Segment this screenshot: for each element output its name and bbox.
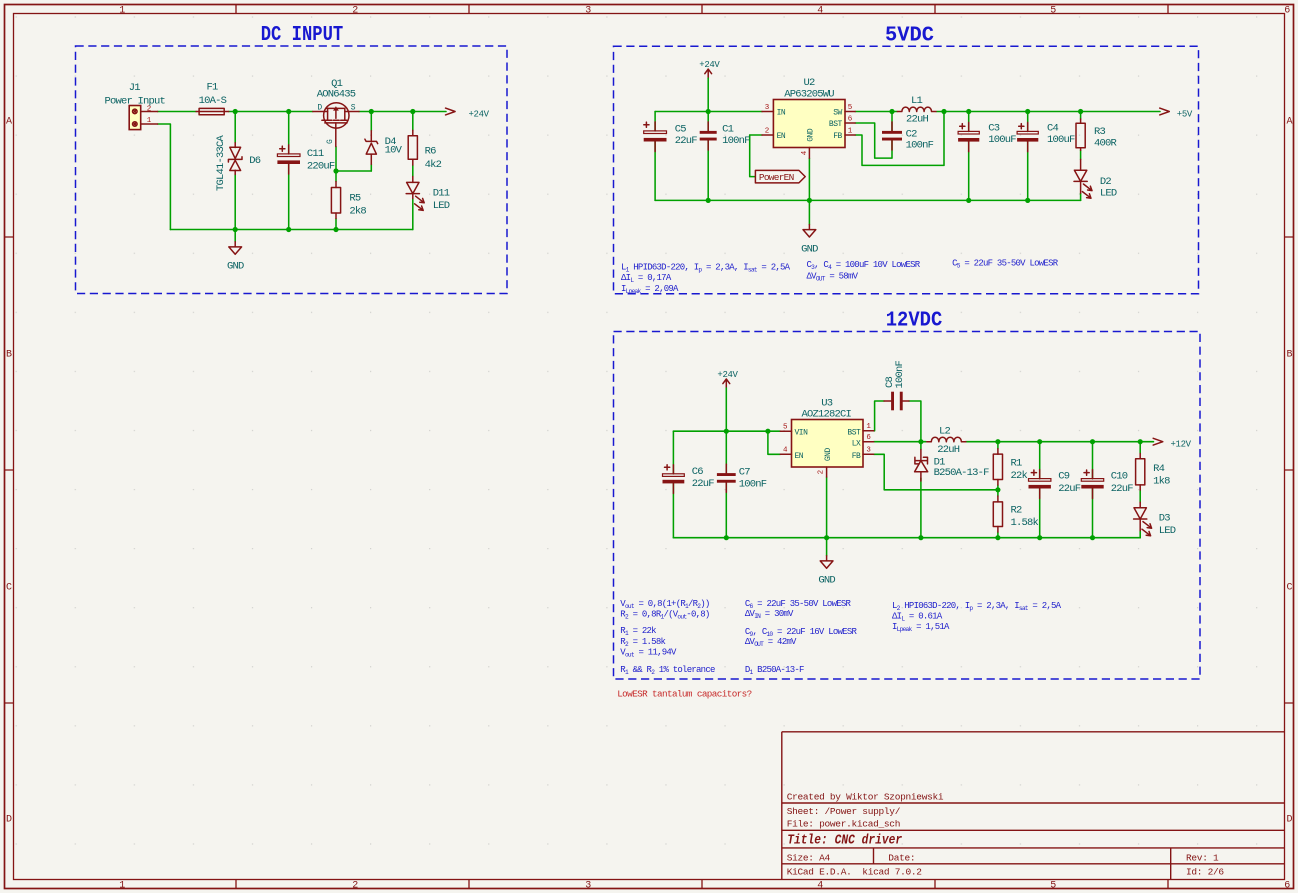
svg-text:5: 5 [1050,880,1056,891]
wire LX node to D1 [920,442,922,450]
wire C6 bottom [672,483,674,537]
svg-text:ΔVOUT = 42mV: ΔVOUT = 42mV [745,637,797,648]
wire C3 top [968,112,970,132]
svg-text:PowerEN: PowerEN [759,172,794,183]
svg-text:G: G [326,139,335,144]
junction U3 GND / ground rail [824,535,829,540]
resistor R4 [1136,454,1145,491]
junction C3 / ground rail [966,198,971,203]
svg-text:TGL41-33CA: TGL41-33CA [215,134,227,191]
wire J1 pin2 to F1 [158,111,197,113]
wire D2 to ground rail [1080,193,1082,200]
svg-text:22uF: 22uF [692,478,715,490]
wire BST up to C8 [874,401,884,431]
svg-text:R1 && R2 1% tolerance: R1 && R2 1% tolerance [620,665,715,676]
svg-text:R1: R1 [1011,458,1023,470]
svg-text:22uF: 22uF [1058,483,1081,495]
svg-text:AOZ1282CI: AOZ1282CI [802,409,852,421]
ground symbol GND (12VDC) [820,556,833,569]
svg-text:6: 6 [1284,880,1290,891]
op-amp U3 AOZ1282CI regulator body [792,420,864,468]
junction R2 / ground rail [995,535,1000,540]
power symbol +24V (5VDC) [705,69,712,78]
wire SW to L1 [855,111,897,113]
svg-text:Sheet: /Power supply/: Sheet: /Power supply/ [787,806,901,817]
wire +12V rail to R4 [1139,442,1141,454]
wire C1 bottom [707,141,709,201]
svg-text:DC INPUT: DC INPUT [261,24,344,47]
power symbol +12V output arrow [1153,438,1163,445]
U2 pin 6 BST [845,122,855,124]
wire D4 bottom [370,164,372,171]
wire Q1 source to +24V rail [359,111,446,113]
LED D3 [1134,502,1152,536]
svg-text:C10: C10 [1111,471,1128,483]
svg-text:C3, C4 = 100uF 10V LowESR: C3, C4 = 100uF 10V LowESR [807,260,921,271]
svg-text:+12V: +12V [1171,440,1192,450]
fuse F1 [196,108,229,114]
wire C7 top [725,431,727,473]
svg-text:Title: CNC driver: Title: CNC driver [787,833,902,849]
svg-text:GND: GND [807,128,816,142]
svg-text:Date:: Date: [888,852,915,863]
resistor R3 [1076,119,1085,150]
svg-text:R5: R5 [349,193,361,205]
wire L2 to +12V rail [966,441,1154,443]
wire C8 to LX node [909,401,921,442]
svg-text:R2: R2 [1011,504,1023,516]
svg-text:C11: C11 [307,148,324,160]
wire C5 bottom [654,142,656,201]
svg-text:R4: R4 [1153,463,1165,475]
wire 12VDC ground rail [673,537,1140,539]
junction C11 / ground rail [286,227,291,232]
junction C10 / +12V rail [1090,439,1095,444]
U2 pin 2 EN [762,134,773,136]
svg-text:C: C [6,583,12,594]
diode D4 zener 10V [365,131,378,165]
svg-text:GND: GND [824,448,833,462]
wire +12V rail to R1 [997,442,999,449]
svg-text:F1: F1 [206,82,218,94]
svg-text:U2: U2 [803,77,815,89]
junction C7 / ground rail 12VDC [724,535,729,540]
wire C1 top [707,112,709,131]
wire D4 top [370,112,372,131]
svg-text:+24V: +24V [469,109,490,119]
svg-text:22uF: 22uF [675,135,698,147]
capacitor C10 22uF [1081,470,1103,499]
svg-text:GND: GND [818,575,835,587]
svg-text:22uF: 22uF [1111,483,1134,495]
svg-text:A: A [1286,117,1292,128]
junction C9 / ground rail [1037,535,1042,540]
svg-text:1k8: 1k8 [1153,475,1170,487]
svg-text:D: D [6,815,12,826]
svg-text:3: 3 [585,5,591,16]
svg-text:C5: C5 [675,123,687,135]
wire C6 top [672,431,674,474]
wire R5 to ground rail [335,219,337,230]
svg-text:100nF: 100nF [722,135,750,147]
svg-text:R6: R6 [425,146,437,158]
wire C3 bottom [968,142,970,201]
svg-text:C1: C1 [722,123,734,135]
svg-text:LED: LED [1159,525,1176,537]
wire R6 to D11 [412,165,414,177]
svg-text:+24V: +24V [717,370,738,380]
U3 pin 3 FB [863,453,874,455]
svg-text:4: 4 [817,880,823,891]
power symbol +24V output arrow [446,108,456,115]
resistor R2 [993,496,1002,532]
wire +24V rail to R6 [412,112,414,131]
U2 pin 3 IN [762,111,773,113]
svg-text:3: 3 [585,880,591,891]
wire C9 bottom [1039,489,1041,538]
svg-text:L2: L2 [939,425,951,437]
svg-text:R3: R3 [1094,126,1106,138]
svg-text:22uH: 22uH [937,444,960,456]
junction C4 / ground rail [1025,198,1030,203]
U2 pin 4 GND [808,148,810,159]
wire C4 top [1027,112,1029,132]
svg-text:100nF: 100nF [739,478,767,490]
svg-text:2k8: 2k8 [349,205,366,217]
junction R5 / ground rail [333,227,338,232]
svg-text:+5V: +5V [1177,109,1193,119]
svg-text:LED: LED [1100,187,1117,199]
title block outline [782,732,1285,880]
svg-text:4: 4 [817,5,823,16]
capacitor C4 100uF [1017,122,1038,151]
global label PowerEN [755,170,805,183]
svg-text:6: 6 [1284,5,1290,16]
wire C10 top [1092,442,1094,479]
wire U2 GND pin down [808,158,810,224]
wire C11 bottom [288,164,290,230]
svg-text:D6: D6 [249,155,261,167]
svg-text:LowESR tantalum capacitors?: LowESR tantalum capacitors? [617,688,751,699]
svg-text:U3: U3 [821,397,833,409]
svg-text:Rev: 1: Rev: 1 [1186,852,1219,863]
svg-text:C6: C6 [692,466,704,478]
diode D1 B250A-13-F schottky [915,450,928,482]
wire R1 to R2 node [997,485,999,496]
svg-text:VIN: VIN [795,429,809,438]
LED D11 [406,177,424,211]
svg-text:22k: 22k [1011,470,1028,482]
svg-text:C7: C7 [739,466,751,478]
junction EN tie / VIN rail [765,429,770,434]
svg-text:FB: FB [833,132,842,141]
svg-text:Created by Wiktor Szopniewski: Created by Wiktor Szopniewski [787,792,944,803]
svg-text:C4: C4 [1047,122,1059,134]
wire down to PowerEN label [750,135,755,177]
junction R6 / +24V rail [410,109,415,114]
svg-text:2: 2 [818,470,826,474]
svg-text:BST: BST [847,428,861,437]
wire C9 top [1039,442,1041,479]
svg-text:GND: GND [227,261,244,273]
wire 5VDC ground rail [655,199,1081,201]
svg-text:AP63205WU: AP63205WU [784,89,834,101]
wire input rail 12VDC [673,430,780,432]
wire gate node to R5 [335,171,337,182]
wire to GND symbol [234,230,236,242]
U3 pin 6 LX [863,441,874,443]
wire to C5 top [654,112,656,131]
svg-text:100nF: 100nF [906,139,934,151]
wire L1 to +5V rail [937,111,1161,113]
svg-text:B: B [1286,350,1292,361]
wire C7 bottom [725,483,727,538]
op-amp U2 AP63205WU regulator body [773,100,845,148]
U2 pin 1 FB [845,134,855,136]
junction C9 / +12V rail [1037,439,1042,444]
wire +24V down to rail (12VDC) [725,388,727,431]
svg-text:File: power.kicad_sch: File: power.kicad_sch [787,818,900,829]
wire D11 to ground rail [412,199,414,230]
svg-text:ΔVOUT = 58mV: ΔVOUT = 58mV [807,271,859,282]
wire C10 bottom [1092,489,1094,538]
wire gate node to D4 [336,170,371,172]
svg-text:10V: 10V [385,145,403,157]
capacitor C5 22uF [644,122,667,152]
svg-text:KiCad E.D.A. kicad 7.0.2: KiCad E.D.A. kicad 7.0.2 [787,866,923,877]
junction +24V / C1 (5VDC) [706,109,711,114]
svg-text:1: 1 [119,5,125,16]
svg-text:D: D [317,103,322,112]
capacitor C7 100nF [717,464,736,492]
svg-text:2: 2 [352,880,358,891]
diode D6 TVS TGL41-33CA [228,143,242,175]
svg-text:ΔIL = 0.61A: ΔIL = 0.61A [892,611,943,622]
5VDC section dashed box [614,46,1199,293]
inductor L2 22uH [927,437,966,441]
svg-text:S: S [351,103,356,112]
junction SW / C2 [889,109,894,114]
svg-text:C9, C10 = 22uF 16V LowESR: C9, C10 = 22uF 16V LowESR [745,627,858,638]
svg-text:R2 = 0,8R1/(Vout-0,8): R2 = 0,8R1/(Vout-0,8) [620,610,709,621]
wire D1 to ground rail [920,478,922,538]
svg-text:D1 B250A-13-F: D1 B250A-13-F [745,665,804,676]
capacitor C6 22uF [663,465,685,494]
junction FB / R1 / R2 [995,487,1000,492]
U2 pin 5 SW [845,111,855,113]
svg-text:C9: C9 [1058,471,1070,483]
LED D2 [1074,159,1092,198]
svg-text:L1: L1 [911,95,923,107]
wire R3 to D2 [1080,150,1082,159]
svg-text:LED: LED [433,200,450,212]
junction C1 / ground rail 5VDC [706,198,711,203]
junction C11 / +24V input rail [286,109,291,114]
junction C4 / +5V rail [1025,109,1030,114]
svg-text:ΔIL = 0,17A: ΔIL = 0,17A [621,273,672,284]
wire U3 GND pin down [826,477,828,556]
svg-text:D: D [1286,815,1292,826]
wire C2 bottom to BST [855,123,892,158]
svg-text:C: C [1286,583,1292,594]
DC INPUT section dashed box [76,46,508,294]
wire FB to output node [855,112,944,166]
svg-text:A: A [6,117,12,128]
connector J1 [129,106,157,130]
wire C11 top [288,112,290,154]
capacitor C3 100uF [958,122,979,151]
ground symbol GND (DC input) [229,242,242,255]
capacitor C9 22uF [1029,470,1051,499]
svg-text:4k2: 4k2 [425,159,442,171]
U3 pin 4 EN [780,453,791,455]
wire input rail 5VDC [655,111,762,113]
svg-text:220uF: 220uF [307,160,335,172]
12VDC section dashed box [614,332,1201,680]
svg-text:J1: J1 [129,82,141,94]
svg-text:D2: D2 [1100,176,1112,188]
junction L1 out / FB [941,109,946,114]
svg-text:B: B [6,350,12,361]
junction D4 / +24V rail [369,109,374,114]
wire J1 pin1 down to ground rail [158,124,171,230]
svg-text:Size: A4: Size: A4 [787,852,831,863]
wire R2 to ground rail [997,532,999,538]
junction R1 / +12V rail [995,439,1000,444]
U3 pin 2 GND [826,467,828,477]
svg-text:+24V: +24V [699,60,720,70]
wire Q1 gate down [335,147,337,172]
svg-text:2: 2 [352,5,358,16]
capacitor C11 220uF [277,145,300,174]
wire D6 top [234,112,236,143]
resistor R1 [993,449,1002,485]
svg-text:2: 2 [765,127,769,135]
svg-text:Vout = 0,8(1+(R1/R2)): Vout = 0,8(1+(R1/R2)) [620,599,709,610]
svg-text:GND: GND [801,243,818,255]
svg-text:22uH: 22uH [906,114,929,126]
svg-text:EN: EN [795,452,804,461]
svg-text:Id: 2/6: Id: 2/6 [1186,866,1224,877]
transistor Q1 AON6435 P-MOSFET [313,103,359,147]
svg-text:B250A-13-F: B250A-13-F [934,467,990,479]
inductor L1 22uH [897,107,936,111]
U3 pin 1 BST [863,430,874,432]
junction D6 / ground rail [233,227,238,232]
svg-text:100nF: 100nF [894,360,906,388]
svg-text:R2 = 1.58k: R2 = 1.58k [620,637,665,648]
svg-text:5: 5 [1050,5,1056,16]
wire +24V down to rail (5VDC) [707,78,709,111]
svg-text:Power Input: Power Input [105,95,166,107]
wire C2 top [891,112,893,131]
resistor R6 [408,130,417,165]
wire D3 to ground rail [1139,531,1141,538]
svg-text:ΔVIN = 30mV: ΔVIN = 30mV [745,609,794,620]
svg-text:AON6435: AON6435 [317,88,356,100]
junction D6 / +24V input rail [233,109,238,114]
svg-text:400R: 400R [1094,138,1118,150]
junction C10 / ground rail [1090,535,1095,540]
wire +5V rail to R3 [1080,112,1082,120]
svg-text:12VDC: 12VDC [886,309,943,332]
capacitor C1 100nF [700,122,717,150]
junction R4 / +12V rail [1138,439,1143,444]
svg-text:1: 1 [119,880,125,891]
svg-text:D11: D11 [433,188,450,200]
wire C4 bottom [1027,142,1029,201]
svg-text:5VDC: 5VDC [885,24,934,47]
wire LX to L2 [874,441,926,443]
svg-text:SW: SW [833,109,842,118]
svg-text:1.58k: 1.58k [1011,517,1039,529]
svg-text:FB: FB [852,452,861,461]
svg-text:EN: EN [777,132,786,141]
junction LX / C8 / D1 [918,439,923,444]
junction D1 / ground rail [918,535,923,540]
resistor R5 [331,182,340,219]
svg-text:D3: D3 [1159,513,1171,525]
U3 pin 5 VIN [780,430,791,432]
svg-text:BST: BST [829,120,843,129]
junction +24V / C7 (12VDC) [724,429,729,434]
svg-text:C3: C3 [988,122,1000,134]
capacitor C2 100nF [882,122,902,150]
junction R3 / +5V rail [1078,109,1083,114]
wire FB to divider [874,454,998,490]
svg-text:L2 HPI063D-220, Ip = 2,3A, Isa: L2 HPI063D-220, Ip = 2,3A, Isat = 2,5A [892,601,1062,612]
wire DC input ground rail [170,229,412,231]
svg-text:IN: IN [777,109,786,118]
capacitor C8 100nF (bootstrap) [884,392,909,411]
junction Q1 gate node [333,168,338,173]
wire R4 to D3 [1139,490,1141,502]
wire D6 bottom [234,174,236,229]
svg-text:10A-S: 10A-S [199,95,227,107]
svg-text:100uF: 100uF [988,134,1016,146]
power symbol +24V (12VDC) [723,379,730,388]
svg-text:C5 = 22uF 35-50V LowESR: C5 = 22uF 35-50V LowESR [952,258,1059,269]
power symbol +5V output arrow [1160,108,1170,115]
wire EN to PowerEN bend [750,134,762,136]
svg-text:100uF: 100uF [1047,134,1075,146]
junction U2 GND / ground rail [807,198,812,203]
wire EN tie to VIN [768,431,780,454]
wire F1 to Q1 drain [229,111,313,113]
junction C3 / +5V rail [966,109,971,114]
ground symbol GND (5VDC) [803,225,816,238]
svg-text:LX: LX [852,439,861,448]
